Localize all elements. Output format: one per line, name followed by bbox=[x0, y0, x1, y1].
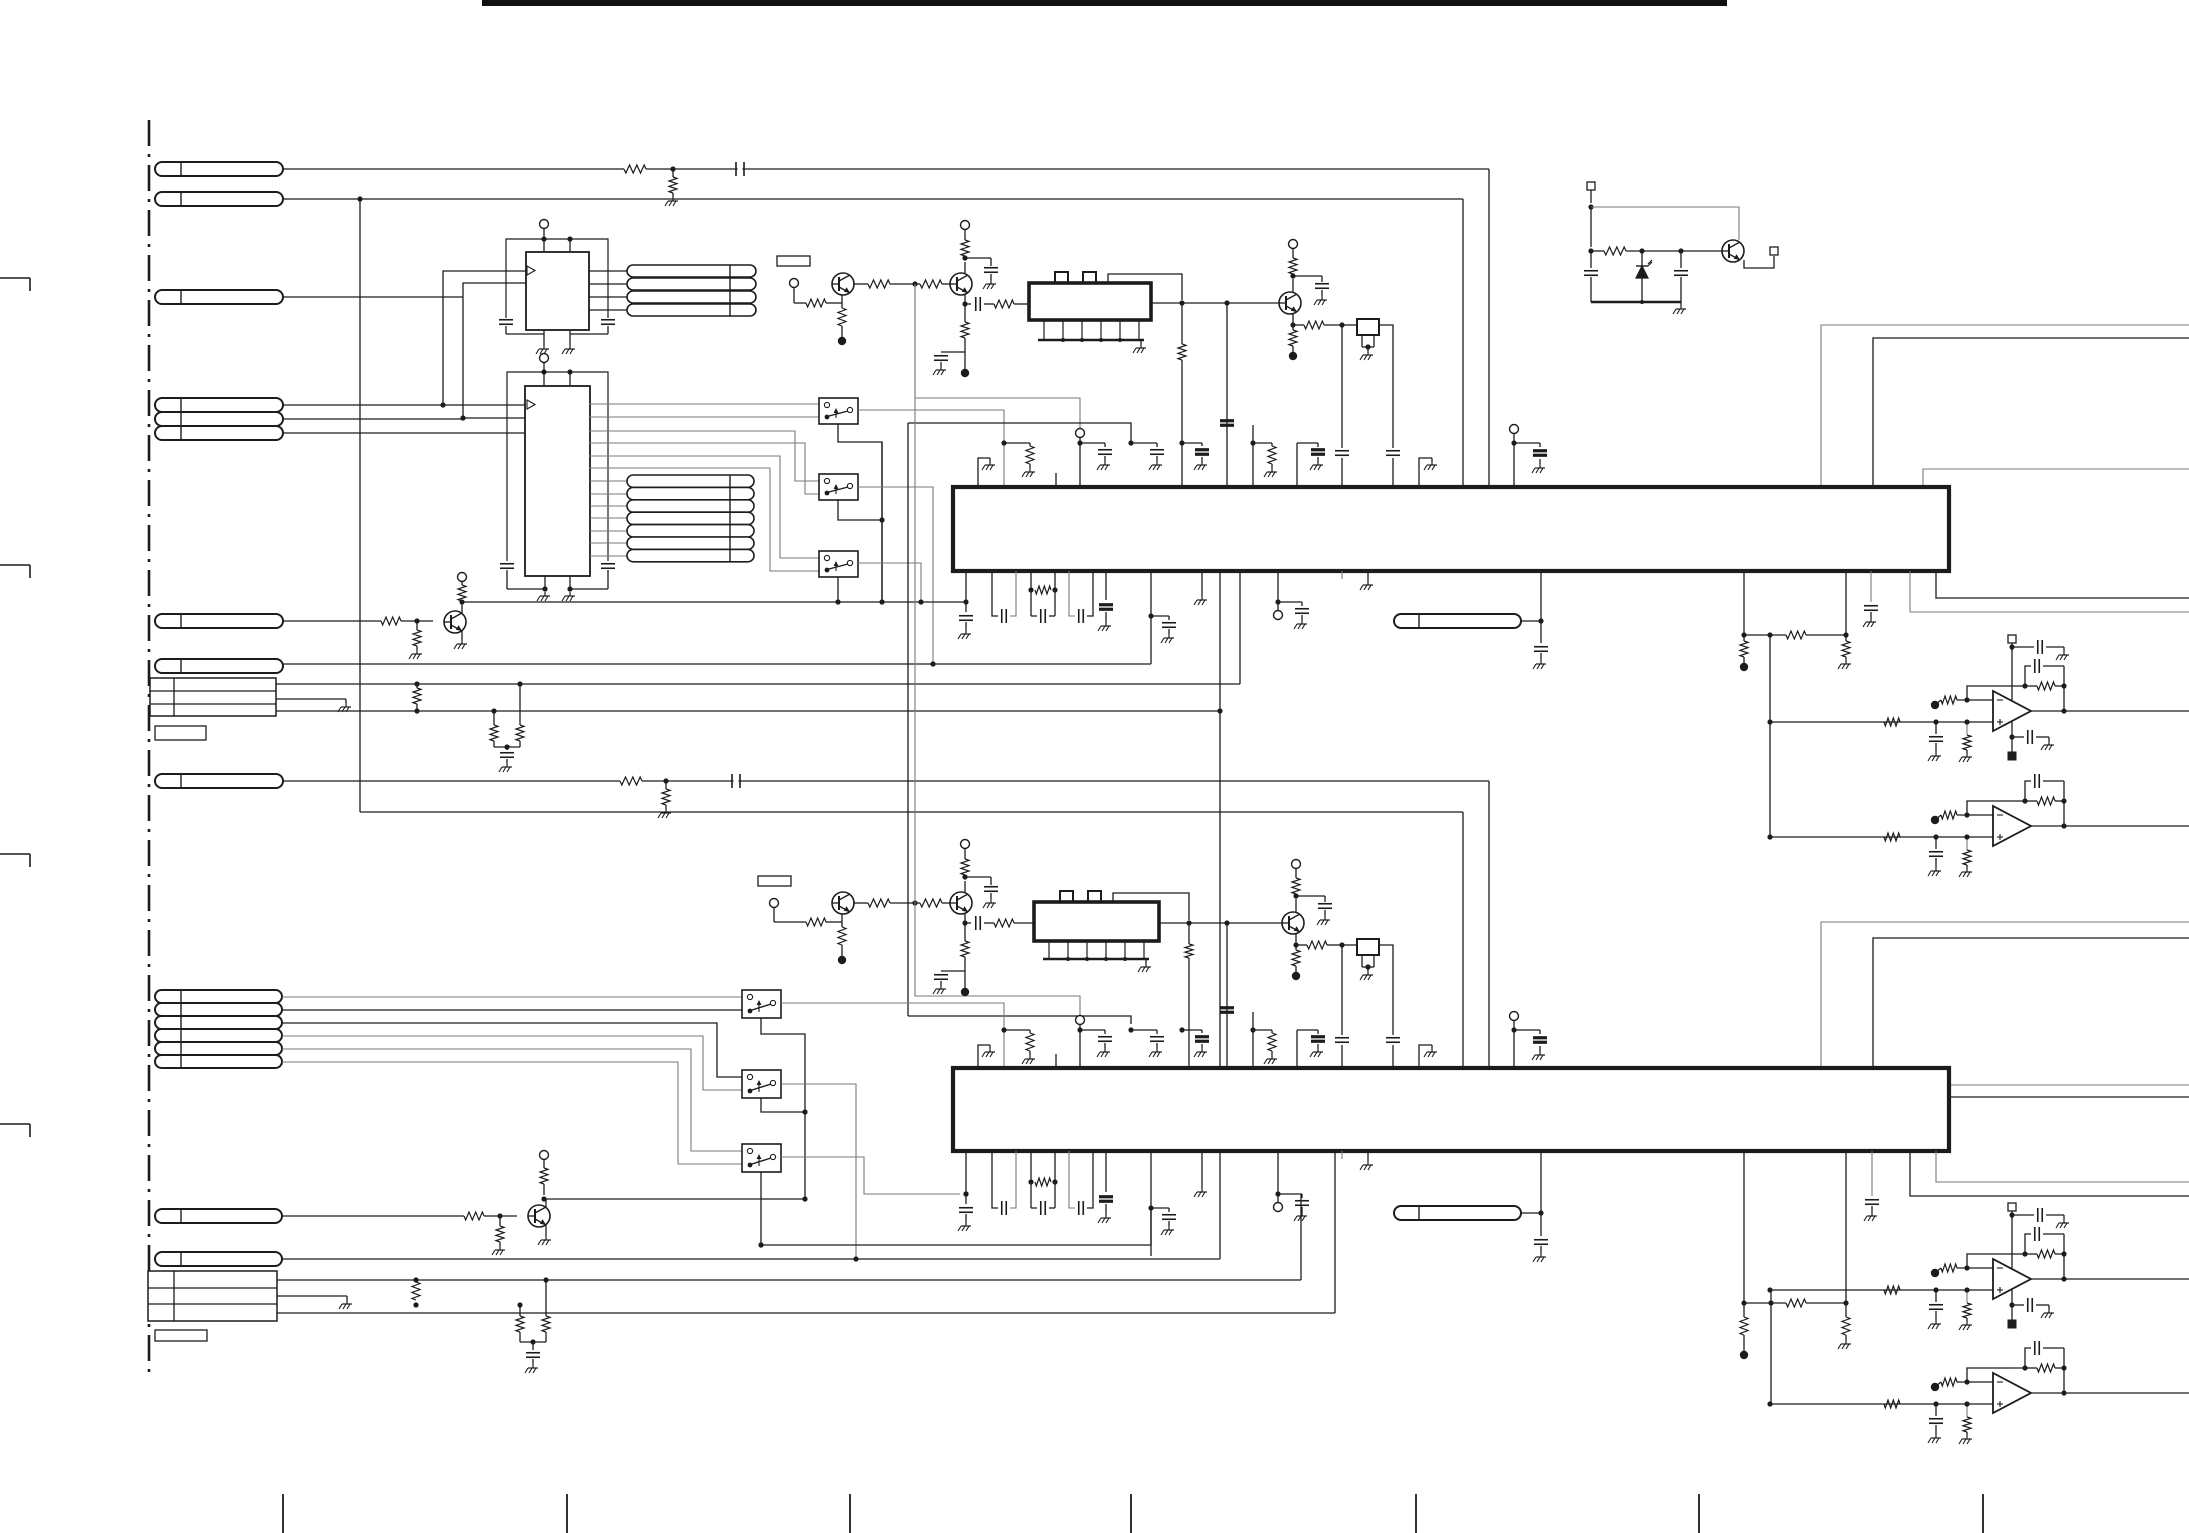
transistor Q101 bbox=[832, 273, 854, 295]
wire FL201 output to Q203 base bbox=[1159, 922, 1282, 924]
collector decoupling capacitor bbox=[1296, 895, 1325, 897]
wire from right edge into IC201 (3) bbox=[1923, 469, 2189, 487]
delay coil L101 stack bbox=[627, 265, 756, 277]
bottom fold tick 6 bbox=[1698, 1494, 1700, 1533]
resistor R107 to IC201 bbox=[1181, 303, 1183, 344]
wire video bus y602 bbox=[462, 601, 966, 603]
IC101 supply bracket bbox=[506, 239, 608, 318]
coupling pair with series capacitor bbox=[1069, 571, 1093, 623]
wire SW102 output joins W6 bbox=[858, 487, 933, 664]
capacitor on W7 bbox=[731, 774, 733, 788]
ground bbox=[1145, 959, 1147, 963]
junction bbox=[879, 517, 884, 522]
pair with bridge resistor and capacitor bbox=[1028, 1151, 1057, 1215]
supply square terminal + capacitor bbox=[2008, 1203, 2069, 1228]
bias row with resistor bbox=[1741, 632, 1746, 637]
pin with electrolytic to ground bbox=[1098, 571, 1113, 631]
switch SW203 bbox=[742, 1144, 781, 1172]
pin with terminal + electrolytic bbox=[1510, 1012, 1548, 1069]
output wire bbox=[2031, 1276, 2189, 1281]
pin with resistor to ground bbox=[1250, 425, 1277, 487]
emitter node dot bbox=[838, 956, 846, 964]
wire to junction bbox=[1521, 620, 1541, 622]
Q204 emitter ground bbox=[545, 1225, 547, 1236]
pin ground stub bbox=[1360, 1151, 1373, 1170]
Q201 emitter resistor bbox=[841, 914, 843, 927]
emitter bypass capacitor bbox=[941, 970, 965, 972]
pin with electrolytic to ground bbox=[1098, 1151, 1113, 1223]
base resistor R103 bbox=[794, 302, 806, 304]
capacitor C111 bbox=[1590, 251, 1592, 268]
wire from right edge into IC201 bbox=[1821, 325, 2189, 487]
wire W4c from P4c bbox=[283, 432, 526, 434]
supply terminal bbox=[1292, 860, 1301, 869]
wires IC301 right-edge pins to sheet edge bbox=[1949, 1084, 2189, 1086]
wire P10 to IC301 pin node bbox=[282, 1258, 1220, 1260]
connector pin P4b bbox=[155, 412, 283, 426]
emitter node dot bbox=[961, 369, 969, 377]
feedback capacitor+resistor bbox=[2022, 774, 2066, 826]
decoupling capacitor bbox=[965, 876, 991, 878]
pin to bus junction with capacitor bbox=[958, 1151, 973, 1231]
resistor to ground bbox=[416, 621, 418, 630]
ground bbox=[990, 899, 992, 903]
op-amp triangle bbox=[1993, 1373, 2031, 1413]
IC102 outputs to SW103 inputs bbox=[589, 456, 819, 558]
FL101 bottom pins to ground bus bbox=[1043, 320, 1045, 340]
wire trimmer to IC201 pin bbox=[1379, 325, 1393, 448]
supply terminal bbox=[540, 220, 549, 229]
base resistor bbox=[774, 921, 806, 923]
black square terminal bbox=[2008, 737, 2017, 761]
connector pin P2 bbox=[155, 192, 283, 206]
wire FL101 output to Q103 base bbox=[1151, 302, 1279, 304]
junction mode node bbox=[912, 281, 917, 286]
left margin fold tick 1 bbox=[0, 277, 30, 279]
wire lower bus y1183 bbox=[544, 1198, 805, 1200]
connector pin P1 bbox=[155, 162, 283, 176]
rail node dot bbox=[1740, 663, 1748, 671]
capacitor below bbox=[1540, 621, 1542, 643]
left margin fold tick 4 bbox=[0, 1123, 30, 1125]
junction bbox=[1588, 204, 1593, 209]
junction mode node bbox=[912, 900, 917, 905]
wire W4a from P4a bbox=[283, 404, 443, 406]
IC102 outputs to L102 coils bbox=[590, 480, 627, 482]
wire SW103 output to lower channel bbox=[858, 563, 921, 602]
op-amp triangle bbox=[1993, 1259, 2031, 1299]
wire mode node to terminal bbox=[915, 903, 1080, 1016]
wire SW103 bottom pin bbox=[837, 577, 839, 602]
short pin stub bbox=[1341, 1151, 1343, 1159]
wire trimmer to IC301 pin bbox=[1379, 945, 1393, 1035]
resistor to rail bbox=[1743, 635, 1745, 641]
capacitor on IC pin bbox=[1870, 571, 1872, 602]
wire W7 from P7 to lower IC pin bbox=[283, 780, 620, 782]
ceramic filter FL201 bbox=[1034, 902, 1159, 941]
junction bbox=[543, 1277, 548, 1282]
wire mode link from upper channel bbox=[914, 284, 916, 903]
feedback capacitor+resistor bbox=[2022, 659, 2066, 711]
pin from mode wire + capacitor bbox=[1128, 1027, 1164, 1057]
wire J1 row3 long bus bbox=[276, 710, 1220, 712]
decoupling capacitor C107 bbox=[965, 257, 991, 259]
pin with corner ground bbox=[1419, 1045, 1437, 1068]
bias feed through bbox=[2009, 1215, 2054, 1318]
junction bbox=[802, 1196, 807, 1201]
ground bbox=[1321, 296, 1323, 300]
wire P9 to Q204 base bbox=[282, 1215, 464, 1217]
junction bbox=[414, 681, 419, 686]
IC102 body bbox=[525, 386, 590, 576]
pin with electrolytic capacitor bbox=[1179, 1027, 1209, 1057]
resistor divider pair lower bbox=[545, 1280, 547, 1316]
resistor divider pair bbox=[491, 708, 496, 713]
wire J1 row2 ground bbox=[276, 698, 346, 700]
Q103 emitter node bbox=[1290, 322, 1295, 327]
IC201 pin to op-amp node bbox=[1743, 571, 1745, 635]
wire SW203 bottom pin bbox=[760, 1172, 762, 1245]
wire Q201 collector to Q202 base bbox=[853, 902, 868, 904]
zener diode D101 bbox=[1641, 251, 1643, 266]
connector block J2 bbox=[148, 1271, 277, 1321]
wire clock feed to IC101/IC102 bbox=[443, 271, 526, 405]
wire SW203 bus to DL junction bbox=[761, 1244, 1151, 1246]
pin with corner ground bbox=[978, 458, 995, 487]
ground bbox=[1324, 916, 1326, 920]
Q202 emitter bias resistor bbox=[964, 923, 966, 941]
pair with bridge resistor and capacitor bbox=[1028, 571, 1057, 623]
supply terminal bbox=[961, 840, 970, 849]
trimmer ground bbox=[1365, 964, 1370, 969]
Q105 collector wire bbox=[461, 602, 463, 613]
pin with terminal and capacitor bbox=[1274, 571, 1310, 629]
resistor R101 to ground on W1 bbox=[672, 169, 674, 177]
resistor to ground bbox=[499, 1216, 501, 1226]
bottom fold tick 7 bbox=[1982, 1494, 1984, 1533]
emitter node dot bbox=[961, 988, 969, 996]
wires P8 to SW201 bbox=[282, 996, 742, 998]
junction W2 / V360 bbox=[357, 196, 362, 201]
wire J2 row3 to trunk x1240 bbox=[277, 1312, 1335, 1314]
input terminal bbox=[770, 899, 779, 908]
wire W4b from P4b bbox=[283, 418, 463, 420]
Q103 collector resistor bbox=[1292, 279, 1294, 292]
IC101 ground pins bbox=[543, 330, 545, 345]
connector pin P5 bbox=[155, 614, 283, 628]
wire SW201 output to IC301 pin bbox=[781, 1003, 1004, 1068]
pin with electrolytic capacitor bbox=[1297, 443, 1325, 487]
pin with terminal + capacitor bbox=[1076, 429, 1113, 488]
pin ground stub bbox=[1194, 1151, 1207, 1197]
connector pin P8d bbox=[155, 1029, 282, 1042]
bias feed through bbox=[2009, 647, 2054, 750]
bypass capacitor C105 bbox=[500, 563, 514, 565]
resistor above Q204 bbox=[540, 1151, 549, 1160]
switch SW103 bbox=[819, 551, 858, 577]
resistor to ground bbox=[1959, 719, 1972, 762]
coupling pair with series capacitor bbox=[992, 571, 1016, 623]
wire from IC301 right to edge bbox=[1936, 1151, 2189, 1182]
transistor Q202 bbox=[950, 892, 972, 914]
IC201 body (main signal processor) bbox=[953, 487, 1949, 571]
wire from right edge into IC301 (2) bbox=[1873, 938, 2189, 1068]
short pin stub bbox=[1055, 473, 1057, 487]
wire V360 vertical feed to lower channel bbox=[359, 199, 361, 812]
non-inverting input wire bbox=[1767, 1286, 1993, 1294]
Q101 emitter resistor bbox=[841, 295, 843, 308]
wire from IC301 right to edge (2) bbox=[1910, 1151, 2189, 1196]
ground bbox=[990, 280, 992, 284]
transistor Q105 bbox=[444, 611, 466, 633]
wire SW202 bottom pin bbox=[761, 1098, 805, 1112]
IC101 clock-in arrow bbox=[527, 266, 535, 275]
op-amp triangle bbox=[1993, 806, 2031, 846]
wire W6 from P6 to IC201 bbox=[283, 663, 1151, 665]
connector pin P8b bbox=[155, 1003, 282, 1016]
Q203 emitter node bbox=[1293, 942, 1298, 947]
junction on W1 bbox=[670, 166, 675, 171]
connector pin P8f bbox=[155, 1055, 282, 1068]
series resistor R111 bbox=[1591, 250, 1604, 252]
bypass capacitor C104 bbox=[601, 319, 615, 321]
connector pin P9 bbox=[155, 1209, 282, 1223]
emitter node dot bbox=[1289, 352, 1297, 360]
vertical trunk x908 (mode line upper to lower) bbox=[908, 423, 1131, 443]
Q204 collector wire bbox=[545, 1199, 547, 1207]
resistor to rail bbox=[1743, 1303, 1745, 1317]
connector pin P7 bbox=[155, 774, 283, 788]
pin from mode wire + capacitor bbox=[1128, 440, 1164, 470]
resistor to ground bbox=[1959, 1401, 1972, 1444]
left board-edge dash-dot boundary line bbox=[148, 120, 151, 1380]
supply terminal bbox=[961, 221, 970, 230]
input terminal bbox=[790, 279, 799, 288]
capacitor to ground bbox=[1928, 837, 1943, 876]
connector pin P4a bbox=[155, 398, 283, 412]
junction bbox=[414, 618, 419, 623]
output wire bbox=[2031, 823, 2189, 828]
pin node with capacitor bbox=[1148, 571, 1176, 664]
pin with series electrolytic bbox=[1220, 923, 1234, 1068]
pin with corner ground bbox=[978, 1045, 995, 1068]
feedback capacitor+resistor bbox=[2022, 1341, 2066, 1393]
connector pin P10 bbox=[155, 1252, 282, 1266]
junction node B bbox=[460, 415, 465, 420]
resistor between J1 rows bbox=[413, 688, 421, 704]
ground rail bbox=[1591, 301, 1681, 303]
ground bus dots bbox=[1066, 957, 1070, 961]
transistor Q201 bbox=[832, 892, 854, 914]
resistor to ground on W7 bbox=[665, 781, 667, 789]
bottom fold tick 2 bbox=[566, 1494, 568, 1533]
pin from switch bus + resistor to ground bbox=[1001, 440, 1035, 477]
wire Q101 collector to Q102 base bbox=[853, 283, 868, 285]
wire SW101 bottom pin to video bus bbox=[838, 424, 882, 602]
trimmer T201 bbox=[1342, 944, 1357, 946]
delay coil L102 stack bbox=[627, 475, 754, 487]
inverting input resistor bbox=[1931, 686, 2025, 709]
delay line DL301 bbox=[1394, 1206, 1521, 1220]
ground bus dots bbox=[1061, 338, 1065, 342]
junction bbox=[413, 1277, 418, 1282]
wire from IC201 right to edge (2) bbox=[1910, 571, 2189, 612]
supply terminal bbox=[1289, 240, 1298, 249]
collector decoupling capacitor bbox=[1293, 275, 1322, 277]
Q103 emitter resistor to rail bbox=[1292, 314, 1294, 325]
wire SW101 output to IC201 pin bbox=[858, 410, 1004, 487]
pin node with capacitor bbox=[1148, 1151, 1176, 1256]
junction on W7 bbox=[663, 778, 668, 783]
junction bbox=[1179, 300, 1184, 305]
IC102 supply bracket bbox=[507, 372, 608, 561]
junction bbox=[1588, 248, 1593, 253]
coupling capacitor C108 bbox=[964, 295, 966, 304]
capacitor C112 bbox=[1680, 251, 1682, 268]
inverting input resistor bbox=[1931, 1368, 2025, 1391]
IC301 body (chroma signal processor) bbox=[953, 1068, 1949, 1151]
emitter bypass capacitor bbox=[941, 351, 965, 353]
bottom fold tick 1 bbox=[282, 1494, 284, 1533]
transistor Q203 bbox=[1282, 912, 1304, 934]
bottom fold tick 4 bbox=[1130, 1494, 1132, 1533]
wire J1 row1 to IC201 pin 1240 bbox=[276, 683, 1240, 685]
resistor to ground bbox=[1845, 1303, 1847, 1317]
wire W1 from P1 to IC201 pin bbox=[283, 168, 624, 170]
wire from IC201 right to edge bbox=[1936, 571, 2189, 598]
pin ground stub bbox=[1194, 571, 1207, 605]
left margin fold tick 2 bbox=[0, 564, 30, 566]
switch SW202 bbox=[742, 1070, 781, 1098]
wires P8 to SW203 bbox=[282, 1049, 742, 1151]
label box (blank) bbox=[155, 1330, 207, 1341]
capacitor C101 on W1 bbox=[735, 162, 737, 176]
transistor Q204 bbox=[528, 1205, 550, 1227]
Q102 emitter node bbox=[962, 301, 967, 306]
wire W8 lower chroma feed bbox=[360, 811, 1463, 813]
ground bbox=[1140, 340, 1142, 344]
label box (blank) bbox=[777, 256, 810, 266]
series resistor R106 bbox=[994, 300, 1014, 308]
capacitor below bbox=[1540, 1213, 1542, 1236]
FL201 bottom pins to ground bus bbox=[1048, 941, 1050, 959]
feedback capacitor+resistor bbox=[2022, 1227, 2066, 1279]
junction bbox=[1186, 920, 1191, 925]
title underline bar bbox=[482, 0, 1727, 6]
vertical trunk x1220 (IC201 to lower J-block) bbox=[1219, 571, 1221, 1259]
transistor Q104 bbox=[1722, 240, 1744, 262]
connector pin P4c bbox=[155, 426, 283, 440]
op-amp triangle bbox=[1993, 691, 2031, 731]
series cap leg into IC301 bbox=[1341, 945, 1343, 1035]
junction bbox=[879, 599, 884, 604]
short pin stub bbox=[1055, 1054, 1057, 1068]
Q203 emitter resistor to rail bbox=[1295, 934, 1297, 945]
bypass capacitor C103 bbox=[499, 319, 513, 321]
switch SW201 bbox=[742, 990, 781, 1018]
junction to op-amp inputs bbox=[1767, 632, 1772, 637]
connector pin P8a bbox=[155, 990, 282, 1003]
resistor between J2 rows bbox=[412, 1282, 420, 1300]
resistor to ground bbox=[1959, 834, 1972, 877]
wire mode node to terminal bbox=[915, 284, 1080, 429]
junction bbox=[1339, 322, 1344, 327]
wire SW203 output to bottom bus bbox=[781, 1157, 960, 1194]
IC101 output wires to L101 coils bbox=[589, 270, 627, 272]
FL101 top tabs bbox=[1055, 272, 1068, 283]
rail node dot bbox=[1740, 1351, 1748, 1359]
non-inverting input wire bbox=[1767, 1400, 1993, 1408]
junction dots on IC102 top bbox=[541, 369, 546, 374]
IC102 clock-in arrow bbox=[527, 400, 535, 409]
supply terminal bbox=[540, 354, 549, 363]
pin with series electrolytic bbox=[1220, 303, 1234, 487]
junction bbox=[497, 1213, 502, 1218]
wire data feed to IC101/IC102 bbox=[463, 283, 526, 418]
output wire bbox=[2031, 708, 2189, 713]
Q102 collector resistor R105 bbox=[964, 262, 966, 273]
wire to junction bbox=[1521, 1212, 1541, 1214]
wire W3 from P3 bbox=[283, 296, 463, 298]
pin ground stub bbox=[1360, 571, 1373, 590]
supply square terminal + capacitor bbox=[2008, 635, 2069, 660]
Q202 collector resistor bbox=[964, 881, 966, 892]
FL201 top tabs bbox=[1060, 891, 1073, 902]
resistor to IC301 bbox=[1188, 923, 1190, 944]
connector block J1 bbox=[150, 678, 276, 716]
coupling pair with series capacitor bbox=[992, 1151, 1016, 1215]
connector pin P8c bbox=[155, 1016, 282, 1029]
IC102 outputs to SW101 inputs bbox=[589, 403, 819, 405]
capacitor to ground bbox=[1928, 722, 1943, 761]
pin with electrolytic capacitor bbox=[1179, 440, 1209, 470]
connector pin P6 bbox=[155, 659, 283, 673]
non-inverting input wire bbox=[1767, 833, 1993, 841]
trimmer ground bbox=[1365, 344, 1370, 349]
wires P8 to SW202 bbox=[282, 1023, 742, 1077]
wire down to zener node bbox=[1590, 207, 1592, 247]
delay line DL201 bbox=[1394, 614, 1521, 628]
junction dots on IC101 top bbox=[541, 236, 546, 241]
junction bbox=[835, 599, 840, 604]
transistor Q103 bbox=[1279, 292, 1301, 314]
inverting input resistor bbox=[1931, 1254, 2025, 1277]
capacitor to ground bbox=[1928, 1404, 1943, 1443]
transistor Q102 bbox=[950, 273, 972, 295]
wire J2 row1 to IC301 pin 1220 bbox=[277, 1279, 1301, 1281]
short pin stub bbox=[1341, 571, 1343, 579]
junction node A bbox=[440, 402, 445, 407]
IC102 ground pins bbox=[544, 576, 546, 589]
bottom fold tick 3 bbox=[849, 1494, 851, 1533]
pin with terminal + electrolytic bbox=[1510, 425, 1548, 488]
left margin fold tick 3 bbox=[0, 853, 30, 855]
series cap leg into IC201 bbox=[1341, 325, 1343, 448]
ground bbox=[1680, 302, 1682, 305]
coupling pair with series capacitor bbox=[1069, 1151, 1093, 1215]
switch SW102 bbox=[819, 474, 858, 500]
pin with corner ground bbox=[1419, 458, 1437, 487]
capacitor to ground bbox=[1928, 1290, 1943, 1329]
wire J2 row2 ground bbox=[277, 1295, 347, 1297]
label box (blank) bbox=[155, 726, 206, 740]
pin from IC301 down bbox=[1540, 1151, 1542, 1213]
coupling capacitor bbox=[964, 914, 966, 923]
bottom fold tick 5 bbox=[1415, 1494, 1417, 1533]
resistor above Q105 bbox=[458, 573, 467, 582]
series resistor bbox=[994, 919, 1014, 927]
Q102 emitter bias resistor bbox=[964, 304, 966, 322]
